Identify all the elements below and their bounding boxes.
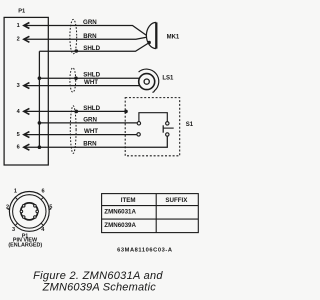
svg-text:Figure 2. ZMN6031A and: Figure 2. ZMN6031A and: [33, 270, 163, 282]
pin bump 2: [20, 210, 23, 213]
svg-text:MK1: MK1: [167, 34, 180, 40]
pin 6 arrow: [24, 144, 30, 150]
svg-text:WHT: WHT: [84, 79, 98, 86]
svg-text:GRN: GRN: [83, 19, 97, 26]
svg-text:BRN: BRN: [83, 33, 97, 40]
svg-text:ZMN6039A: ZMN6039A: [104, 222, 136, 229]
svg-text:2: 2: [17, 37, 20, 43]
wire SHLD speaker cable from shield bus: [39, 77, 139, 79]
pin 5 arrow: [24, 132, 30, 138]
svg-text:P1: P1: [18, 9, 25, 15]
junction dot mic cable shield: [75, 49, 79, 53]
tick pin 1: [15, 197, 18, 200]
wire WHT pin3 to LS1: [24, 85, 140, 87]
svg-text:ZMN6039A Schematic: ZMN6039A Schematic: [42, 282, 157, 294]
wire GRN pin1 to MK1: [24, 26, 146, 36]
junction dot switch cable shield: [75, 110, 79, 114]
connector P1 pin view inner circle: [21, 203, 38, 220]
svg-text:SUFFIX: SUFFIX: [165, 197, 188, 204]
junction dot shield to S1 case: [124, 110, 128, 114]
svg-text:6: 6: [42, 188, 45, 194]
connector P1 pin view outer circle: [9, 192, 49, 232]
svg-text:ZMN6031A: ZMN6031A: [104, 209, 136, 216]
item table header row line: [102, 205, 199, 207]
svg-text:BRN: BRN: [83, 141, 97, 148]
connector P1 pin view middle ring: [13, 195, 46, 228]
cable ellipse LS1: [70, 68, 76, 92]
svg-text:1: 1: [14, 189, 17, 195]
wire S1 top rail: [139, 113, 167, 122]
wire WHT pin5 to S1: [24, 134, 137, 136]
tick pin 3: [15, 223, 18, 226]
microphone MK1: [146, 22, 156, 48]
svg-text:SHLD: SHLD: [83, 105, 100, 112]
svg-text:3: 3: [17, 83, 20, 89]
switch S1 actuator bar: [162, 125, 164, 132]
svg-text:3: 3: [12, 227, 15, 233]
switch S1 contact left-bottom: [137, 133, 140, 136]
shield bus vertical wire: [38, 51, 40, 147]
svg-text:2: 2: [6, 205, 9, 211]
tick pin 4: [41, 223, 44, 226]
switch S1 actuator stem: [163, 127, 174, 129]
item table column divider: [155, 194, 157, 233]
tick pin 5: [49, 208, 51, 211]
pin 3 arrow: [24, 83, 30, 89]
switch S1 contact right-bottom: [166, 133, 169, 136]
svg-text:WHT: WHT: [84, 128, 98, 135]
pin bump 6: [34, 205, 37, 208]
wire BRN pin6 to S1: [24, 136, 167, 147]
wire SHLD mic cable to shield bus: [39, 43, 149, 52]
junction dot shield bus speaker: [38, 76, 42, 80]
loudspeaker LS1: [139, 69, 159, 92]
pin bump 4: [34, 216, 37, 219]
tick pin 2: [7, 208, 9, 211]
wire GRN switch from shield bus: [39, 122, 137, 124]
pin bump 1: [22, 205, 25, 208]
switch S1 contact right-top: [166, 122, 169, 125]
svg-text:(ENLARGED): (ENLARGED): [8, 242, 42, 248]
svg-text:1: 1: [17, 23, 20, 29]
switch S1 contact left-top: [137, 122, 140, 125]
connector P1 box: [4, 17, 48, 165]
svg-text:6: 6: [17, 145, 20, 151]
pin bump 3: [22, 216, 25, 219]
svg-text:GRN: GRN: [83, 116, 97, 123]
junction dot shield bus GRN: [38, 121, 42, 125]
pin 1 arrow: [24, 23, 30, 29]
pin 2 arrow: [24, 36, 30, 42]
svg-text:5: 5: [17, 132, 20, 138]
item table second row line: [102, 218, 199, 220]
switch S1 dashed enclosure: [125, 98, 180, 156]
wire SHLD switch cable pin4: [24, 110, 126, 112]
tick pin 6: [41, 197, 44, 200]
cable ellipse MK1: [70, 19, 77, 53]
junction dot speaker cable shield: [74, 76, 78, 80]
svg-text:ITEM: ITEM: [121, 197, 136, 204]
cable ellipse S1: [70, 106, 76, 154]
svg-text:63MA81106C03-A: 63MA81106C03-A: [117, 248, 173, 254]
junction dot MK1 shield: [148, 41, 151, 44]
wire BRN pin2 to MK1: [24, 37, 146, 39]
svg-text:S1: S1: [186, 122, 194, 128]
pin 4 arrow: [24, 108, 30, 114]
svg-text:5: 5: [49, 205, 52, 211]
svg-text:SHLD: SHLD: [83, 71, 100, 78]
junction dot shield bus pin6: [38, 145, 42, 149]
svg-text:LS1: LS1: [162, 76, 174, 82]
svg-text:SHLD: SHLD: [83, 45, 100, 52]
item table frame: [102, 194, 199, 233]
pin bump 5: [36, 210, 39, 213]
